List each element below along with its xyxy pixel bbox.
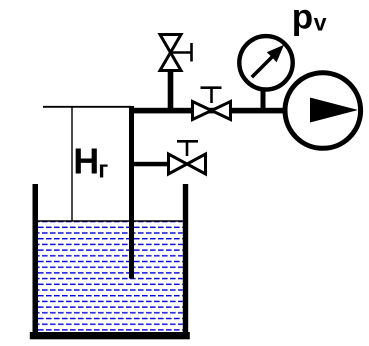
branch pipe [131, 162, 169, 167]
water surface line [38, 220, 183, 222]
gauge stub [261, 90, 266, 110]
tank left wall [33, 184, 39, 334]
main pipe (horizontal) [129, 108, 290, 114]
vent valve (vertical bowtie) [160, 35, 181, 71]
dimension line Hg [71, 107, 73, 221]
pump impeller triangle [310, 98, 358, 123]
tank right wall [183, 184, 188, 334]
water in tank [38, 222, 183, 333]
vent valve handle [171, 43, 192, 62]
branch valve V2 (bowtie) [169, 154, 206, 174]
svg-text:H: H [73, 140, 99, 181]
main gate valve stem [201, 88, 222, 103]
branch valve stem [177, 141, 198, 156]
svg-text:p: p [292, 0, 313, 37]
tank bottom [30, 332, 190, 339]
svg-text:г: г [98, 157, 108, 184]
gauge needle arrow [252, 55, 275, 78]
vent valve stem [168, 70, 174, 110]
suction pipe (vertical) [129, 106, 134, 279]
svg-text:v: v [314, 10, 327, 36]
pressure gauge circle [239, 36, 292, 89]
reference level line [43, 106, 132, 108]
main gate valve V1 (bowtie) [193, 102, 231, 120]
pump circle [285, 73, 361, 149]
